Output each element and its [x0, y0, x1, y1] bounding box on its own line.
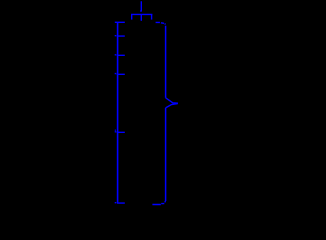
brace vertical upper: [165, 26, 167, 98]
tick 5: [115, 130, 125, 132]
tick 3: [115, 54, 125, 57]
tick 4: [115, 73, 125, 76]
tick 6: [115, 202, 125, 204]
brace cusp: [166, 98, 178, 108]
tick 2: [115, 35, 125, 37]
brace bottom hook: [152, 201, 165, 205]
ground prong right: [151, 14, 153, 19]
wire (top vertical lead): [140, 1, 141, 11]
ground prong center: [140, 14, 142, 20]
tick 1: [115, 21, 125, 23]
brace top hook (dashed): [156, 22, 166, 24]
ground prong left: [131, 14, 133, 19]
rail (left vertical line): [117, 22, 119, 203]
ground symbol bar: [131, 13, 152, 15]
brace vertical lower: [165, 108, 167, 201]
